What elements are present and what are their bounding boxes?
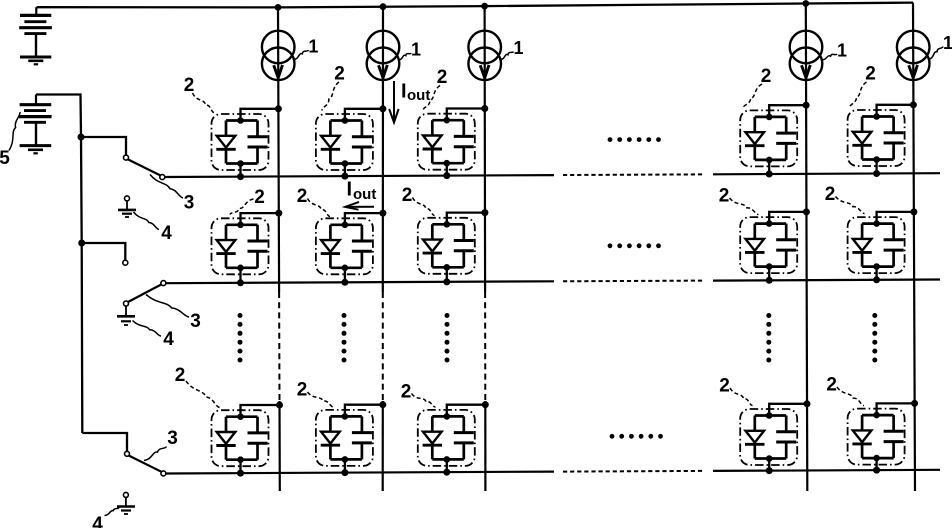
switch 3 (row1) blade: [128, 159, 161, 175]
label 1 (col1): [293, 37, 318, 60]
memory cell 2 (row1 col4): diode + capacitor: [740, 102, 809, 178]
wire: top power rail: [37, 3, 914, 8]
label 5: [0, 112, 20, 169]
switch 3 (row1) throw contact: [160, 175, 165, 180]
switch 3 (row2) blade: [128, 284, 161, 302]
wire: row line 2 (dashed continuation): [563, 280, 703, 283]
memory cell 2 (row2 col1): diode + capacitor: [212, 210, 283, 287]
label 4 (row2): [133, 321, 175, 351]
label 3 (row1): [150, 175, 194, 214]
label 2 (row3 col3): [401, 382, 436, 408]
wire: column line 3 (dashed continuation): [484, 292, 486, 401]
wire: row2 switch feed: [82, 243, 126, 260]
node: rail junction col1: [275, 4, 282, 11]
label 2 (row3 col2): [297, 380, 334, 408]
svg-text:4: 4: [92, 514, 103, 528]
svg-text:2: 2: [761, 66, 772, 87]
wire: row1 switch feed: [81, 137, 126, 155]
wire: row line 2 (solid right): [713, 280, 940, 281]
memory cell 2 (row3 col1): diode + capacitor: [212, 402, 284, 477]
wire: column line 1 (lower): [278, 401, 280, 491]
label Iout (column current, top): [389, 81, 430, 123]
memory cell 2 (row3 col3): diode + capacitor: [418, 401, 489, 476]
ellipsis: omitted columns row2: [608, 243, 661, 248]
svg-text:1: 1: [837, 41, 847, 61]
svg-text:3: 3: [167, 428, 178, 449]
ellipsis: omitted rows col2: [342, 313, 347, 363]
svg-text:1: 1: [411, 40, 421, 60]
svg-text:1: 1: [943, 33, 952, 53]
ellipsis: omitted rows col4: [766, 313, 771, 363]
label 2 (row1 col1): [184, 75, 214, 113]
battery B0 (top-left supply): [19, 7, 52, 56]
svg-text:out: out: [407, 87, 430, 104]
wire: column line 2 (dashed continuation): [382, 292, 384, 401]
wire: column line 1 (dashed continuation): [278, 292, 280, 401]
wire: select bus: [36, 95, 82, 434]
wire: column line 2 (upper): [382, 7, 384, 292]
wire: row line 1 (dashed continuation): [563, 173, 703, 176]
current source 1 (col5): [897, 31, 930, 80]
svg-text:2: 2: [297, 186, 308, 207]
wire: row line 3 (dashed continuation): [563, 470, 703, 473]
label 1 (col5): [928, 33, 952, 59]
wire: row line 3 (solid left): [165, 472, 554, 474]
current source 1 (col2): [367, 31, 400, 80]
switch 3 (row3) throw contact: [161, 471, 166, 476]
label 4 (row1): [134, 212, 173, 244]
wire: row3 switch feed: [82, 433, 127, 451]
memory cell 2 (row2 col4): diode + capacitor: [740, 208, 810, 283]
label 2 (row2 col2): [297, 186, 330, 217]
label 2 (row2 col3): [402, 185, 435, 216]
label 2 (row2 col4): [719, 186, 759, 215]
label 2 (row2 col1): [230, 187, 265, 215]
label 2 (row1 col5): [850, 64, 876, 108]
wire: column line 2 (lower): [382, 401, 384, 491]
memory cell 2 (row1 col5): diode + capacitor: [848, 101, 917, 177]
label 2 (row3 col5): [826, 375, 864, 406]
svg-text:2: 2: [719, 376, 730, 397]
wire: column line 5: [913, 3, 915, 491]
label 2 (row1 col2): [322, 64, 345, 111]
wire: column line 3 (lower): [484, 401, 486, 491]
current source 1 (col1): [262, 31, 295, 80]
label 4 (row3): [92, 508, 119, 528]
wire: column line 1 (upper): [278, 7, 279, 292]
wire: row line 3 (solid right): [713, 470, 940, 471]
node: bus tap row2: [78, 240, 85, 247]
label Iout (row current): [345, 178, 376, 209]
memory cell 2 (row1 col2): diode + capacitor: [316, 105, 387, 179]
svg-text:2: 2: [254, 187, 265, 208]
svg-text:2: 2: [719, 186, 730, 207]
ellipsis: omitted rows col1: [238, 313, 243, 363]
label 2 (row3 col1): [175, 365, 220, 408]
memory cell 2 (row2 col5): diode + capacitor: [848, 208, 918, 283]
svg-text:out: out: [353, 186, 376, 203]
switch 3 (row1) pole: [124, 155, 129, 160]
node: rail junction col3: [481, 3, 488, 10]
ellipsis: omitted columns row1: [608, 137, 661, 142]
svg-text:2: 2: [334, 64, 345, 85]
label 3 (row2): [146, 295, 201, 333]
wire: row line 2 (solid left): [166, 281, 554, 283]
svg-text:2: 2: [401, 382, 412, 403]
svg-text:2: 2: [297, 380, 308, 401]
svg-text:2: 2: [175, 365, 186, 386]
label 3 (row3): [144, 428, 178, 461]
switch 3 (row2) pole: [161, 281, 166, 286]
ground (battery B0): [20, 57, 51, 64]
svg-text:3: 3: [190, 311, 201, 332]
ground contact 4 (row1): [118, 196, 136, 217]
label 1 (col3): [500, 38, 524, 59]
svg-text:2: 2: [825, 184, 836, 205]
svg-text:2: 2: [402, 185, 413, 206]
node: bus tap row1: [78, 134, 85, 141]
memory cell 2 (row2 col3): diode + capacitor: [418, 209, 489, 285]
wire: column line 4: [806, 4, 808, 492]
ground (battery 5): [20, 146, 52, 154]
node: rail junction col4: [802, 0, 809, 7]
ground contact 4 (row2): [117, 301, 135, 325]
ellipsis: omitted rows col3: [445, 313, 450, 363]
svg-text:I: I: [401, 81, 407, 103]
wire: row line 1 (solid left): [165, 175, 554, 177]
svg-text:4: 4: [163, 329, 174, 350]
label 1 (col4): [821, 41, 847, 61]
wire: column line 3 (upper): [484, 6, 487, 292]
memory cell 2 (row1 col1): diode + capacitor: [212, 105, 282, 180]
ground contact 4 (row3): [117, 492, 135, 514]
current source 1 (col3): [468, 31, 501, 80]
memory cell 2 (row3 col4): diode + capacitor: [740, 400, 810, 474]
battery 5: [19, 95, 52, 146]
node: rail junction col2: [380, 3, 387, 10]
current source 1 (col4): [790, 31, 823, 80]
wire: row line 1 (solid right): [713, 173, 940, 174]
memory cell 2 (row2 col2): diode + capacitor: [316, 210, 387, 286]
switch 3 (row2) open bus contact: [123, 260, 128, 265]
ellipsis: omitted rows col5: [872, 313, 877, 363]
svg-text:2: 2: [184, 75, 195, 96]
label 2 (row1 col4): [743, 66, 771, 108]
switch 3 (row3) blade: [129, 456, 162, 472]
label 2 (row3 col4): [719, 376, 752, 406]
svg-text:2: 2: [865, 64, 876, 85]
ellipsis: omitted columns row3: [610, 434, 663, 439]
label 2 (row2 col5): [825, 184, 865, 214]
memory cell 2 (row1 col3): diode + capacitor: [418, 105, 489, 179]
svg-text:1: 1: [513, 38, 523, 58]
svg-text:I: I: [347, 178, 353, 200]
memory cell 2 (row3 col2): diode + capacitor: [316, 401, 386, 476]
svg-text:2: 2: [437, 67, 448, 88]
svg-text:3: 3: [184, 193, 195, 214]
svg-text:4: 4: [161, 223, 172, 244]
svg-text:1: 1: [308, 37, 318, 57]
label 2 (row1 col3): [423, 67, 447, 111]
memory cell 2 (row3 col5): diode + capacitor: [848, 400, 919, 474]
switch 3 (row3) pole: [125, 451, 130, 456]
svg-text:5: 5: [0, 148, 10, 169]
svg-text:2: 2: [826, 375, 837, 396]
label 1 (col2): [398, 40, 421, 60]
